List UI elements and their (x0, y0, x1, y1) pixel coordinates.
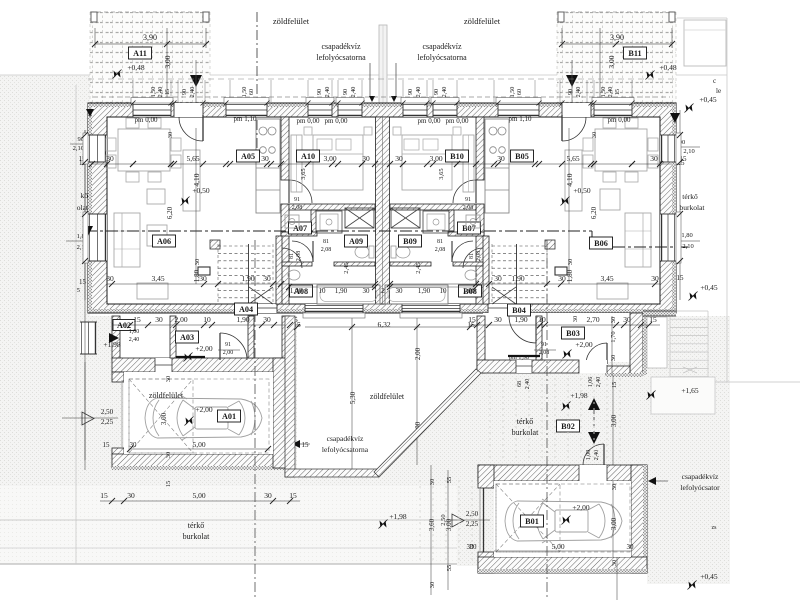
svg-text:2,00: 2,00 (223, 350, 234, 356)
room label B08 (459, 285, 482, 297)
window sills right facade (676, 133, 681, 164)
svg-text:2,00: 2,00 (414, 347, 422, 360)
svg-text:+0,48: +0,48 (127, 63, 145, 72)
wall stairs|A07 vertical (276, 236, 282, 304)
building outer wall band with hatch (88, 103, 676, 313)
sofa A06 (114, 213, 140, 267)
washbasin A08 (288, 270, 300, 280)
downpipe chimney between units (379, 25, 387, 103)
svg-text:30: 30 (363, 287, 371, 295)
svg-text:1,50: 1,50 (600, 87, 607, 98)
survey mark B11 (647, 72, 654, 79)
svg-text:91: 91 (294, 197, 300, 203)
door A06 0.90 top wall (174, 103, 203, 117)
entry block B interior white (483, 313, 633, 362)
garage B top wall (478, 465, 647, 481)
door arc B10 (453, 180, 476, 203)
B02 arrow down triangle (588, 432, 600, 444)
roof overhang dashed second line (88, 78, 676, 80)
bathtub A08 (317, 285, 380, 304)
door A04 bottom wall (255, 304, 277, 313)
svg-text:15: 15 (611, 382, 618, 389)
window B10 0.90 top wall (403, 103, 427, 117)
dim row y281 living (107, 283, 375, 285)
black triangle marker A02 (109, 333, 119, 343)
paving joint dashed lines driveway right (419, 480, 421, 560)
svg-text:2,08: 2,08 (539, 350, 550, 356)
site boundary light line right vertical (726, 18, 728, 382)
garage A left wall stubs and door (112, 372, 124, 382)
door arc A10 (289, 180, 312, 203)
svg-text:2,40: 2,40 (575, 87, 582, 98)
shaft square A near stairs (210, 240, 220, 249)
tv bench B06 (597, 283, 628, 299)
svg-text:90: 90 (316, 89, 323, 95)
dimension 3,90 B11 (562, 43, 672, 45)
window right wall 0.90 (660, 135, 676, 162)
bed B10 (402, 135, 452, 190)
garage B left wall stubs and door (478, 465, 494, 488)
wall B washer partition (449, 210, 454, 234)
entry block A bottom wall / garage top wall (112, 358, 290, 372)
room label B03 (562, 327, 585, 339)
svg-text:30: 30 (127, 491, 135, 500)
svg-text:1,50: 1,50 (241, 87, 248, 98)
garage A bottom wall (112, 454, 290, 468)
svg-text:lefolyócsatorna: lefolyócsatorna (316, 53, 366, 62)
svg-text:30: 30 (611, 484, 618, 491)
desk A06 (147, 189, 165, 204)
ticks on left wall vertical dim (82, 132, 88, 138)
svg-text:3,65: 3,65 (438, 168, 445, 179)
partition A03|A04 (248, 316, 254, 358)
door arc B08 (452, 241, 473, 262)
garage A interior white (124, 372, 273, 454)
svg-text:le: le (716, 87, 721, 95)
svg-text:2,08: 2,08 (476, 251, 482, 262)
svg-text:3,00: 3,00 (610, 517, 618, 530)
svg-text:1,50: 1,50 (509, 87, 516, 98)
svg-text:pm 0,00: pm 0,00 (135, 116, 158, 124)
svg-text:A01: A01 (222, 412, 236, 421)
svg-text:1,90: 1,90 (241, 274, 254, 283)
B garage bottom right verticals (616, 557, 618, 600)
wall A05|A10 vertical (281, 117, 289, 180)
svg-text:pm 0,00: pm 0,00 (325, 117, 348, 125)
svg-text:91: 91 (225, 342, 231, 348)
svg-text:2,10: 2,10 (73, 145, 84, 152)
property dashdot line B bottom (546, 240, 548, 600)
closet B10 (463, 135, 474, 192)
svg-text:15: 15 (165, 481, 172, 488)
car in garage A01 (145, 396, 262, 440)
window A05 kitchen 1.50 top wall (226, 103, 267, 117)
svg-text:15: 15 (614, 89, 621, 95)
svg-text:30: 30 (497, 154, 505, 163)
window left wall 0.90 (88, 135, 107, 162)
door arc garage B pedestrian (603, 444, 605, 465)
svg-text:térkő: térkő (682, 192, 698, 201)
svg-text:+1,98: +1,98 (389, 512, 407, 521)
center vertical dims between garages (430, 465, 432, 595)
window A10b 0.90 top wall (338, 103, 362, 117)
svg-text:zöldfelület: zöldfelület (273, 16, 310, 26)
toilet A09 (355, 246, 369, 258)
room label B07 (458, 222, 481, 234)
svg-text:A03: A03 (180, 333, 194, 342)
black marker triangle B top (566, 75, 578, 87)
svg-text:c: c (713, 77, 716, 85)
left site dimension column (84, 130, 86, 460)
svg-text:30: 30 (572, 316, 579, 323)
garden retaining hatched strips (285, 316, 295, 477)
svg-text:30: 30 (165, 376, 172, 383)
window right wall 1.80 (660, 214, 676, 261)
svg-text:68: 68 (517, 381, 523, 387)
svg-text:90: 90 (433, 89, 440, 95)
svg-text:B10: B10 (450, 152, 464, 161)
top window dim vertical lines (132, 80, 134, 102)
basin square B07 (466, 215, 480, 228)
svg-text:90: 90 (407, 89, 414, 95)
window B10b 0.90 top wall (433, 103, 457, 117)
svg-text:2,08: 2,08 (463, 205, 474, 211)
small dark marker B06 hall (555, 267, 567, 275)
room label B04 (508, 304, 531, 316)
svg-text:1,80: 1,80 (681, 232, 692, 239)
svg-text:1,90: 1,90 (335, 287, 348, 295)
washing machine B09 (423, 211, 449, 233)
svg-text:2,45: 2,45 (415, 262, 422, 273)
bed A10 (313, 135, 363, 190)
site ground paving bottom area (88, 316, 457, 486)
staircase A (218, 245, 273, 247)
window A10 0.90 top wall (308, 103, 332, 117)
terrace B11 paving grid (557, 12, 676, 108)
section line A-A dashdot (85, 230, 592, 232)
garage B right wall (631, 465, 647, 573)
room label A06 (153, 235, 176, 247)
svg-text:2,70: 2,70 (586, 315, 599, 324)
svg-text:6,32: 6,32 (377, 320, 390, 329)
white niche right of B03 (647, 317, 667, 368)
svg-text:csapadékvíz: csapadékvíz (682, 472, 719, 481)
garage A bottom dim row y498 (100, 500, 300, 502)
svg-text:zöldfelület: zöldfelület (149, 391, 184, 400)
kitchen counter B05 (485, 119, 509, 213)
B03 threshold bar (508, 355, 540, 357)
shaft square B near stairs (545, 240, 555, 249)
room label B09 (399, 235, 422, 247)
svg-text:2,08: 2,08 (296, 251, 302, 262)
svg-text:1,70: 1,70 (610, 331, 617, 342)
center dim lines y287 (289, 286, 375, 288)
svg-text:30: 30 (591, 132, 598, 139)
svg-text:3,00: 3,00 (610, 414, 618, 427)
svg-text:2,08: 2,08 (321, 247, 332, 253)
svg-text:1,00: 1,00 (586, 450, 592, 461)
svg-text:1,50: 1,50 (150, 87, 157, 98)
svg-text:pm 1,10: pm 1,10 (234, 115, 257, 123)
svg-text:lefolyócsatorna: lefolyócsatorna (322, 445, 369, 454)
garage A right wall (273, 358, 290, 468)
toilet B09 (396, 246, 410, 258)
svg-text:5,65: 5,65 (186, 154, 199, 163)
svg-text:3,90: 3,90 (610, 33, 624, 42)
svg-text:csapadékvíz: csapadékvíz (327, 434, 364, 443)
svg-text:csapadékvíz: csapadékvíz (321, 42, 361, 51)
window sills left facade (83, 133, 88, 164)
roof overhang dashed line above building (93, 96, 670, 98)
svg-text:55: 55 (446, 565, 453, 572)
wall A07 horizontal (281, 232, 317, 236)
basin square A07 (285, 215, 299, 228)
garden dims (416, 316, 418, 465)
svg-text:zs: zs (712, 525, 718, 531)
svg-text:zöldfelület: zöldfelület (370, 392, 405, 401)
shaft with X B (391, 208, 420, 228)
svg-text:30: 30 (106, 274, 114, 283)
svg-text:81: 81 (289, 253, 295, 259)
svg-text:+0,45: +0,45 (700, 572, 718, 581)
washbasin B08 (465, 270, 477, 280)
svg-text:30: 30 (627, 543, 635, 551)
dining table A06 (118, 129, 170, 171)
svg-text:30: 30 (396, 287, 404, 295)
svg-text:30: 30 (106, 154, 114, 163)
svg-text:1,90: 1,90 (236, 315, 249, 324)
svg-text:2,45: 2,45 (343, 262, 350, 273)
partition B04|B03 (536, 316, 542, 360)
room label A01 (218, 410, 241, 422)
svg-text:burkolat: burkolat (680, 203, 706, 212)
svg-text:A09: A09 (349, 237, 363, 246)
svg-text:3,60: 3,60 (428, 518, 436, 531)
svg-text:30: 30 (264, 491, 272, 500)
svg-text:90: 90 (181, 89, 188, 95)
paving joint dashed lines courtyard B02 (489, 378, 491, 462)
extra ticks row y164 (130, 161, 136, 167)
svg-text:1,06: 1,06 (588, 377, 594, 388)
svg-text:kő: kő (81, 191, 89, 200)
svg-text:A10: A10 (301, 152, 315, 161)
site boundary light line top (0, 74, 727, 76)
bottom site lines (0, 519, 457, 521)
svg-text:1,90: 1,90 (514, 315, 527, 324)
black triangle right wall top (670, 113, 680, 123)
svg-text:2,08: 2,08 (435, 247, 446, 253)
window B05 kitchen 1.50 top wall (498, 103, 539, 117)
neighbour building outline top right (684, 20, 726, 66)
svg-text:3,90: 3,90 (143, 33, 157, 42)
door arc A07 from hall (282, 248, 302, 268)
svg-text:2,40: 2,40 (324, 87, 331, 98)
svg-text:B11: B11 (628, 49, 641, 58)
svg-text:B09: B09 (403, 237, 417, 246)
room label B02 (557, 420, 580, 432)
island counter B (565, 150, 582, 211)
room label A10 (297, 150, 320, 162)
svg-text:2,40: 2,40 (594, 450, 600, 461)
svg-text:5,65: 5,65 (566, 154, 579, 163)
svg-text:4,10: 4,10 (192, 173, 201, 186)
svg-text:B04: B04 (512, 306, 526, 315)
svg-text:30: 30 (167, 132, 174, 139)
svg-text:B05: B05 (515, 152, 529, 161)
entry block A left wall (112, 316, 120, 360)
wall B07 horizontal (448, 232, 484, 236)
svg-text:2,40: 2,40 (607, 87, 614, 98)
svg-text:30: 30 (263, 274, 271, 283)
svg-text:81: 81 (437, 239, 443, 245)
ticks main row y164 more (89, 161, 95, 167)
ticks top wall line (131, 101, 136, 106)
door arc B03 inner (535, 316, 537, 343)
svg-text:3,00: 3,00 (607, 55, 616, 68)
svg-text:91: 91 (465, 197, 471, 203)
svg-text:A05: A05 (241, 152, 255, 161)
svg-text:90: 90 (342, 89, 349, 95)
wall stairs|B07 vertical (483, 236, 489, 304)
kitchen counter A05 (256, 119, 280, 213)
svg-text:térkő: térkő (517, 417, 533, 426)
left margin vertical dim line (84, 130, 86, 300)
svg-text:B01: B01 (525, 517, 539, 526)
garage B interior white (494, 481, 631, 557)
svg-text:6,20: 6,20 (166, 206, 174, 219)
svg-text:5,00: 5,00 (551, 542, 564, 551)
svg-text:2,40: 2,40 (350, 87, 357, 98)
svg-text:A07: A07 (293, 224, 307, 233)
svg-text:3,00: 3,00 (429, 154, 442, 163)
svg-text:10: 10 (203, 315, 211, 324)
armchair A06 (147, 225, 167, 246)
svg-text:2,10: 2,10 (683, 148, 694, 155)
entry block B right wall (630, 313, 643, 375)
tv bench A06 (137, 283, 168, 299)
svg-text:olat: olat (77, 203, 89, 212)
svg-text:15: 15 (100, 491, 108, 500)
svg-text:+0,45: +0,45 (700, 283, 718, 292)
svg-text:+0,50: +0,50 (573, 186, 591, 195)
svg-text:91: 91 (541, 342, 547, 348)
wall B05|B10 vertical (476, 117, 484, 180)
dimension 3,90 A11 (95, 43, 206, 45)
svg-text:+0,48: +0,48 (659, 63, 677, 72)
svg-text:B07: B07 (462, 224, 476, 233)
window sills top facade (131, 98, 173, 104)
svg-text:2,08: 2,08 (292, 205, 303, 211)
svg-text:+2,00: +2,00 (575, 340, 593, 349)
svg-text:2,40: 2,40 (415, 87, 422, 98)
leader arrow to downpipe left (369, 63, 371, 97)
black marker triangle A top (190, 75, 202, 87)
svg-text:30: 30 (623, 315, 631, 324)
garage A inner dim line y449 ticks (127, 446, 133, 452)
svg-text:30: 30 (165, 452, 172, 459)
svg-text:30: 30 (155, 315, 163, 324)
svg-text:30: 30 (429, 479, 436, 486)
entry block A interior white (118, 316, 284, 360)
room label B10 (446, 150, 469, 162)
ticks on garden dim row (294, 324, 300, 330)
entry block A right wall (282, 316, 290, 358)
svg-text:térkő: térkő (188, 521, 204, 530)
wall A08 horizontal (282, 262, 312, 266)
svg-text:30: 30 (494, 315, 502, 324)
svg-text:5: 5 (77, 287, 80, 294)
washing machine A09 (316, 211, 342, 233)
svg-text:90: 90 (567, 89, 574, 95)
window B08 bottom wall (402, 304, 460, 313)
svg-text:B03: B03 (566, 329, 580, 338)
entry block B bottom-right wall segment (606, 366, 630, 375)
svg-text:2,40: 2,40 (189, 87, 196, 98)
svg-text:30: 30 (362, 154, 370, 163)
room label A07 (289, 222, 312, 234)
A02 threshold bar (176, 356, 205, 358)
bathtub B08 (385, 285, 448, 304)
svg-text:30: 30 (467, 543, 475, 551)
window A08 bottom wall (305, 304, 363, 313)
svg-text:1,00: 1,00 (290, 287, 303, 295)
svg-text:2,10: 2,10 (682, 243, 693, 250)
room label B06 (590, 237, 613, 249)
parking cross dashed A (129, 379, 193, 453)
svg-text:15: 15 (133, 315, 141, 324)
entry block B left wall (477, 316, 485, 373)
svg-text:1,00: 1,00 (463, 287, 476, 295)
garage B bottom wall (478, 557, 647, 573)
svg-text:+1,65: +1,65 (681, 386, 699, 395)
svg-text:3,45: 3,45 (151, 274, 164, 283)
svg-text:pm 0,00: pm 0,00 (608, 116, 631, 124)
car in garage B01 (505, 499, 622, 543)
neighbour landing rectangle right (651, 377, 715, 414)
svg-text:5,00: 5,00 (192, 491, 205, 500)
svg-text:30: 30 (610, 355, 617, 362)
svg-text:+2,00: +2,00 (195, 405, 213, 414)
SE corner crosshatch band (643, 311, 676, 316)
parking cross dashed B (496, 484, 560, 552)
door arc A03 (219, 333, 221, 360)
svg-text:30: 30 (429, 582, 436, 589)
label A11 (129, 47, 152, 59)
sofa B06 (625, 213, 651, 267)
svg-text:1,90: 1,90 (511, 274, 524, 283)
svg-text:30: 30 (261, 154, 269, 163)
svg-text:pm 0,00: pm 0,00 (418, 117, 441, 125)
svg-text:2,40: 2,40 (525, 379, 531, 390)
window A06 1.50 top wall (133, 103, 171, 117)
armchair B06 (600, 189, 620, 210)
door arc B07 from hall (463, 248, 483, 268)
entry block B bottom wall (477, 360, 579, 373)
svg-text:60: 60 (516, 89, 523, 95)
wall under B10 horizontal (390, 204, 476, 210)
svg-text:5,30: 5,30 (349, 391, 357, 404)
svg-text:15: 15 (79, 278, 87, 286)
svg-text:pm 0,00: pm 0,00 (297, 117, 320, 125)
room label A08 (290, 285, 313, 297)
svg-text:1,90: 1,90 (418, 287, 431, 295)
neighbour terrace lines right (652, 381, 800, 383)
svg-text:30: 30 (567, 259, 574, 266)
vertical dim 4,10 etc (195, 128, 197, 284)
svg-text:2,00: 2,00 (174, 315, 187, 324)
svg-text:15: 15 (468, 315, 476, 324)
svg-text:3,00: 3,00 (163, 55, 172, 68)
